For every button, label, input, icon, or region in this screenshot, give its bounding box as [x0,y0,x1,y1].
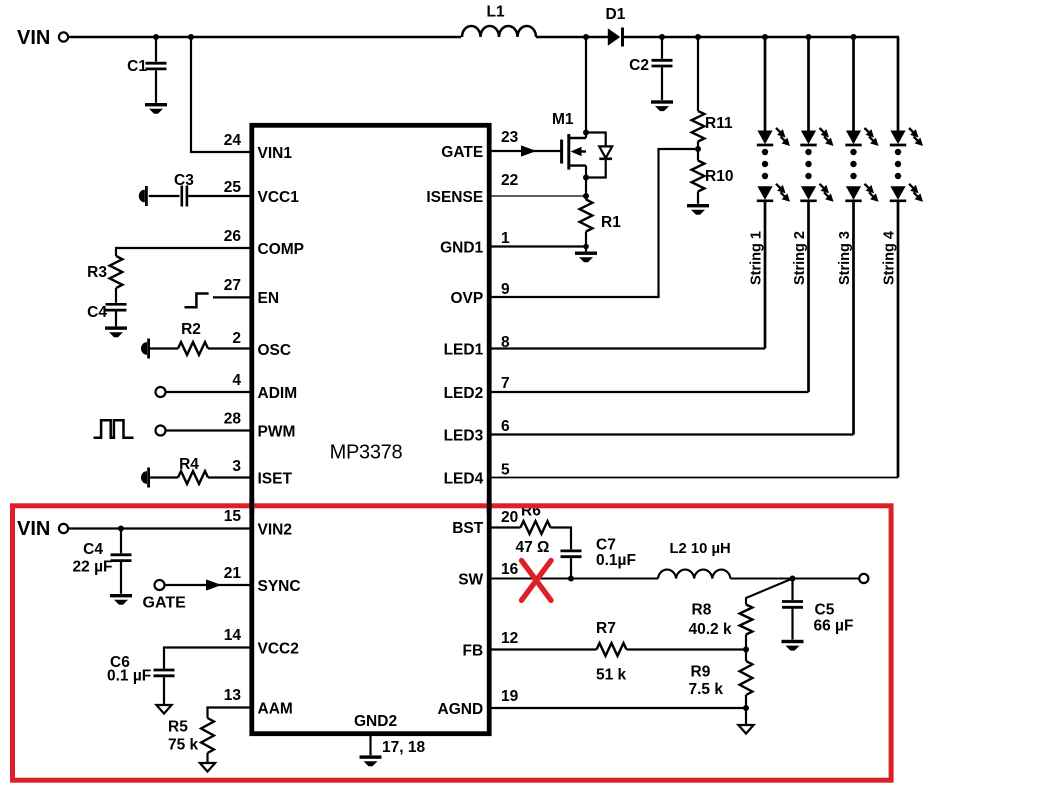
svg-text:51 k: 51 k [596,667,627,684]
svg-text:16: 16 [501,561,519,578]
svg-text:R9: R9 [691,664,711,681]
svg-text:LED3: LED3 [444,428,484,445]
svg-text:C4: C4 [87,304,107,321]
svg-text:L1: L1 [487,4,505,21]
svg-text:GATE: GATE [441,144,483,161]
svg-text:19: 19 [501,688,519,705]
svg-text:R1: R1 [601,214,621,231]
svg-text:1: 1 [501,230,510,247]
svg-text:GATE: GATE [143,595,187,612]
svg-text:17, 18: 17, 18 [382,739,425,756]
svg-text:COMP: COMP [258,241,305,258]
svg-text:C3: C3 [174,172,194,189]
svg-text:R4: R4 [179,456,199,473]
svg-text:13: 13 [224,687,242,704]
svg-text:0.1 µF: 0.1 µF [107,668,151,685]
svg-text:66 µF: 66 µF [814,618,854,635]
svg-text:VCC1: VCC1 [258,189,300,206]
svg-text:C1: C1 [127,58,147,75]
svg-text:C4: C4 [83,541,103,558]
svg-text:C7: C7 [596,537,616,554]
svg-text:26: 26 [224,228,242,245]
svg-text:3: 3 [232,458,241,475]
svg-text:VIN: VIN [17,27,50,49]
svg-text:ADIM: ADIM [258,385,298,402]
svg-text:R10: R10 [705,168,733,185]
svg-text:47 Ω: 47 Ω [516,539,550,556]
svg-text:VIN2: VIN2 [258,522,292,539]
svg-text:12: 12 [501,630,518,647]
svg-text:15: 15 [224,508,242,525]
svg-text:C5: C5 [815,602,835,619]
svg-text:String 1: String 1 [749,231,765,285]
svg-text:21: 21 [224,565,242,582]
svg-text:5: 5 [501,462,510,479]
svg-text:LED2: LED2 [444,385,484,402]
svg-text:OVP: OVP [450,290,483,307]
svg-text:MP3378: MP3378 [330,442,403,464]
svg-text:27: 27 [224,277,241,294]
svg-text:7.5 k: 7.5 k [689,681,724,698]
svg-text:25: 25 [224,179,242,196]
svg-text:AAM: AAM [258,701,293,718]
svg-text:75 k: 75 k [168,737,199,754]
svg-text:0.1µF: 0.1µF [596,552,636,569]
svg-text:PWM: PWM [258,424,296,441]
svg-text:R11: R11 [705,115,733,132]
svg-text:GND2: GND2 [354,713,397,730]
svg-text:7: 7 [501,375,510,392]
svg-text:24: 24 [224,132,242,149]
svg-text:28: 28 [224,411,242,428]
svg-text:22 µF: 22 µF [73,559,113,576]
svg-text:L2 10 µH: L2 10 µH [670,541,731,557]
svg-text:BST: BST [452,520,484,537]
svg-text:20: 20 [501,509,518,526]
svg-text:LED1: LED1 [444,342,484,359]
svg-text:14: 14 [224,627,242,644]
svg-text:40.2 k: 40.2 k [689,621,732,638]
svg-text:4: 4 [232,372,241,389]
svg-text:VCC2: VCC2 [258,641,299,658]
svg-text:VIN: VIN [17,518,50,540]
svg-text:6: 6 [501,418,510,435]
svg-text:2: 2 [232,330,241,347]
svg-text:9: 9 [501,281,510,298]
svg-text:AGND: AGND [438,701,484,718]
svg-text:ISENSE: ISENSE [426,189,483,206]
svg-text:String 4: String 4 [882,231,898,285]
svg-text:FB: FB [463,643,484,660]
svg-text:R3: R3 [87,264,107,281]
svg-text:LED4: LED4 [444,471,484,488]
svg-text:OSC: OSC [258,342,292,359]
svg-text:GND1: GND1 [440,240,483,257]
svg-text:R7: R7 [596,620,616,637]
svg-text:R8: R8 [692,602,712,619]
svg-text:D1: D1 [606,6,626,23]
svg-text:R2: R2 [181,321,201,338]
svg-text:EN: EN [258,290,280,307]
svg-text:M1: M1 [552,111,574,128]
svg-text:R5: R5 [168,719,188,736]
svg-text:22: 22 [501,172,518,189]
svg-text:VIN1: VIN1 [258,145,293,162]
svg-text:SYNC: SYNC [258,578,301,595]
svg-text:String 2: String 2 [792,231,808,285]
svg-text:SW: SW [458,572,483,589]
svg-text:String 3: String 3 [837,231,853,285]
svg-text:ISET: ISET [258,471,293,488]
svg-text:C2: C2 [629,57,649,74]
svg-text:23: 23 [501,129,519,146]
